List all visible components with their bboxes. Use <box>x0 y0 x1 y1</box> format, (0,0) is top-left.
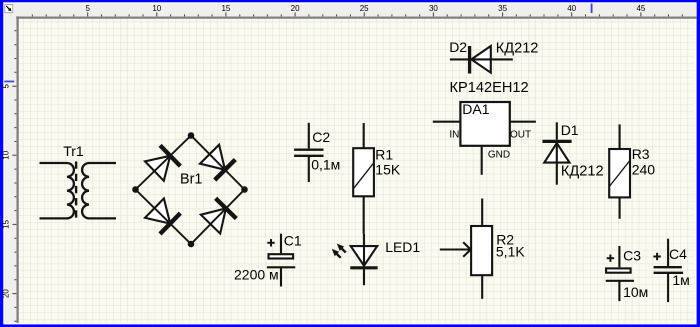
DA1 input lead <box>433 121 461 123</box>
svg-text:КД212: КД212 <box>496 40 539 56</box>
LED LED1 <box>350 234 377 285</box>
svg-text:40: 40 <box>567 4 576 13</box>
svg-text:240: 240 <box>632 162 656 178</box>
capacitor C2 <box>294 123 323 182</box>
diode D2 <box>450 46 513 74</box>
node left of bridge <box>132 186 139 193</box>
C3 plus sign <box>607 255 614 262</box>
DA1 ground lead <box>481 145 483 175</box>
svg-text:5: 5 <box>2 83 11 88</box>
node right of bridge <box>241 186 248 193</box>
C4 plus sign <box>653 253 660 260</box>
svg-text:R3: R3 <box>632 146 650 162</box>
svg-text:15: 15 <box>2 219 11 228</box>
svg-text:10: 10 <box>152 4 161 13</box>
svg-text:10м: 10м <box>623 284 648 300</box>
regulator U DA1 <box>460 102 509 146</box>
diode D1 <box>543 122 572 184</box>
svg-text:КР142ЕН12: КР142ЕН12 <box>450 80 529 96</box>
bridge diode (left-bottom arm) <box>145 199 180 234</box>
svg-text:C4: C4 <box>669 246 687 262</box>
svg-text:Br1: Br1 <box>180 171 202 187</box>
svg-text:5,1K: 5,1K <box>496 243 525 259</box>
svg-text:1м: 1м <box>672 272 689 288</box>
resistor R1 <box>353 123 374 234</box>
svg-text:35: 35 <box>498 4 507 13</box>
svg-text:2200 м: 2200 м <box>234 267 279 283</box>
svg-text:25: 25 <box>360 4 369 13</box>
transformer Tr1 <box>40 162 117 221</box>
svg-text:Tr1: Tr1 <box>63 143 84 159</box>
capacitor C4 <box>654 239 684 302</box>
svg-text:LED1: LED1 <box>385 239 420 255</box>
node bottom of bridge <box>188 241 195 248</box>
svg-text:OUT: OUT <box>510 130 531 141</box>
R2 wiper arrow <box>440 242 471 257</box>
svg-text:C1: C1 <box>284 233 302 249</box>
capacitor C1 <box>267 234 295 287</box>
svg-text:20: 20 <box>2 289 11 298</box>
svg-text:D2: D2 <box>449 39 467 55</box>
svg-text:15: 15 <box>221 4 230 13</box>
svg-text:10: 10 <box>2 150 11 159</box>
capacitor C3 <box>606 246 634 301</box>
svg-text:0,1м: 0,1м <box>311 156 340 172</box>
LED1 emission arrows <box>332 244 346 258</box>
svg-text:C2: C2 <box>312 129 330 145</box>
svg-text:R1: R1 <box>375 147 393 163</box>
svg-text:КД212: КД212 <box>561 164 604 180</box>
C1 plus sign <box>267 239 274 246</box>
bridge Br1 wiring diamond <box>136 136 245 245</box>
svg-text:45: 45 <box>636 4 645 13</box>
svg-text:D1: D1 <box>561 122 579 138</box>
svg-text:20: 20 <box>291 4 300 13</box>
svg-text:30: 30 <box>429 4 438 13</box>
svg-text:C3: C3 <box>623 248 641 264</box>
resistor R2 <box>471 199 492 299</box>
bridge diode (bottom-right arm) <box>201 198 236 233</box>
svg-text:DA1: DA1 <box>462 101 489 117</box>
bridge diode (left-top arm) <box>145 145 180 180</box>
svg-text:5: 5 <box>85 4 90 13</box>
svg-text:IN: IN <box>449 130 459 141</box>
svg-text:15K: 15K <box>375 162 401 178</box>
svg-text:GND: GND <box>488 150 510 161</box>
bridge diode (top-right arm) <box>200 145 235 180</box>
node top of bridge <box>188 132 195 139</box>
DA1 output lead <box>510 121 536 123</box>
resistor R3 <box>609 124 630 218</box>
